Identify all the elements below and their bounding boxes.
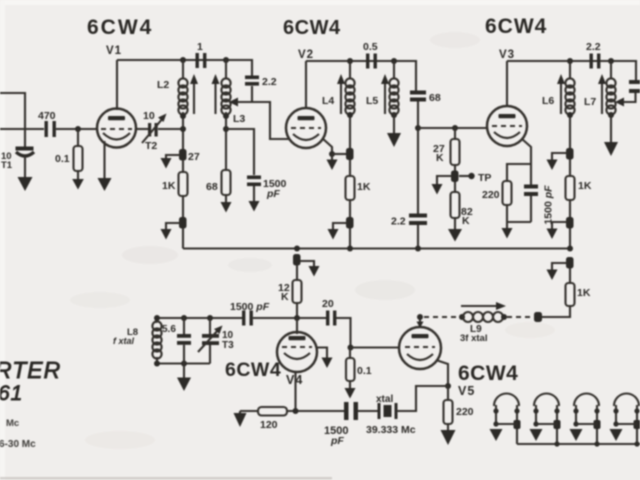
svg-text:L6: L6 (542, 95, 554, 107)
svg-text:20: 20 (322, 298, 334, 310)
wire grid V3 (418, 127, 487, 129)
wire L3 to 1500pF (226, 129, 254, 175)
tap arrow L3 (229, 98, 238, 107)
node bus 12K (294, 246, 300, 252)
svg-text:0.1: 0.1 (357, 365, 372, 377)
svg-text:470: 470 (38, 110, 56, 122)
wire heater ground bus (517, 443, 640, 445)
resistor 68 (222, 170, 231, 195)
ground arrow (L7) (604, 142, 618, 156)
trimmer capacitor T2 (148, 123, 151, 137)
wire V4 cathode (294, 371, 296, 411)
svg-text:Mc: Mc (6, 418, 19, 429)
ground arrow (328, 229, 339, 240)
ground arrow (68) (221, 202, 232, 213)
feedthrough capacitor (stage2 bypass) (346, 217, 354, 229)
svg-text:68: 68 (206, 181, 218, 193)
tuning arrow L2 (193, 82, 195, 114)
wire osc tank bottom (156, 362, 210, 364)
heater choke 1 (494, 394, 519, 407)
node L6 top (567, 58, 573, 64)
node L7 top (608, 58, 614, 64)
wire V1 plate bus (117, 60, 252, 76)
svg-text:6CW4: 6CW4 (485, 15, 547, 38)
svg-text:6CW4: 6CW4 (225, 359, 281, 381)
svg-text:39.333 Mc: 39.333 Mc (366, 424, 416, 436)
B+ bus (183, 247, 570, 249)
tube V2 (286, 108, 326, 148)
wire to bus (349, 228, 351, 249)
ground arrow (osc tank) (177, 378, 191, 392)
svg-text:pF: pF (266, 188, 280, 200)
resistor 82K (454, 182, 456, 192)
heater choke 3 (574, 394, 599, 407)
node V4 cathode (293, 408, 299, 414)
node bus 2.2 (415, 246, 421, 252)
resistor 12K (296, 265, 298, 280)
ground arrow (V1 cathode) (98, 178, 112, 191)
wire osc tank line (156, 317, 242, 319)
capacitor 68 (V2 out) (410, 91, 426, 95)
feedthrough capacitor (L4/cathode) (346, 148, 354, 160)
svg-text:V3: V3 (499, 49, 515, 61)
tap arrow L7 (615, 98, 624, 107)
heater choke 2 (534, 394, 559, 407)
capacitor 1500 pF (osc series) (242, 311, 245, 326)
feedthrough capacitor (12K feed) (293, 254, 301, 266)
svg-text:0.5: 0.5 (363, 41, 378, 53)
inductor L9 with dashed links (424, 316, 459, 318)
node L2 mid (180, 113, 186, 119)
wire to B+ bus (182, 228, 184, 249)
capacitor 0.5 (366, 54, 369, 69)
wire cathode to L4 (332, 153, 346, 155)
node L5 top (391, 58, 397, 64)
ground arrow (82K) (448, 229, 462, 242)
feedthrough capacitor (L6 bypass) (566, 217, 574, 229)
tuning arrow L7 (601, 82, 603, 114)
ground arrow (V2 cathode) (327, 160, 338, 171)
svg-text:T1: T1 (1, 160, 13, 171)
capacitor 20 (326, 311, 329, 326)
trimmer capacitor T1 (16, 147, 34, 151)
feedthrough capacitor (L9 right) (534, 312, 542, 322)
wire cathode RC ground (507, 221, 531, 223)
resistor 1K (stage2) (349, 160, 351, 176)
node L6 bottom (567, 112, 573, 118)
ground arrow (27K) (432, 184, 443, 195)
svg-text:220: 220 (456, 406, 474, 418)
svg-text:1K: 1K (357, 181, 371, 193)
node 12K bottom (294, 315, 300, 321)
inductor L8 (155, 318, 157, 323)
resistor 1K (stage1) (182, 160, 184, 172)
wire tap to V2 cathode (237, 102, 290, 139)
ground arrow (547, 229, 558, 240)
svg-text:pF: pF (330, 435, 344, 447)
wire T2 to L2 (158, 128, 183, 130)
svg-text:6-30 Mc: 6-30 Mc (0, 439, 36, 450)
test point TP (459, 175, 469, 177)
wire V2 plate bus (306, 61, 416, 91)
ground arrow (heater line left) (239, 411, 241, 414)
heater choke 4 (614, 394, 639, 407)
svg-text:6CW4: 6CW4 (87, 16, 153, 39)
wire to V5 grid (351, 346, 401, 348)
svg-text:2.2: 2.2 (391, 216, 406, 228)
node L3 top (223, 57, 229, 63)
wire V3 cathode (522, 139, 531, 185)
svg-text:220: 220 (482, 189, 500, 201)
svg-text:K: K (462, 215, 470, 227)
svg-text:2.2: 2.2 (262, 76, 277, 88)
tube V1 (97, 109, 136, 148)
node junction 0.1 (75, 126, 81, 132)
resistor 120 (258, 407, 287, 416)
resistor 220 (V3) (503, 181, 512, 205)
feedthrough capacitor (1K bypass) (179, 217, 187, 229)
node bus stage3 (567, 246, 573, 252)
resistor 1K (osc plate) (569, 268, 571, 283)
ground arrow (L5) (387, 133, 401, 147)
svg-text:K: K (436, 152, 444, 164)
svg-text:68: 68 (429, 92, 441, 104)
tuning arrow L9 (461, 305, 497, 307)
svg-text:1K: 1K (162, 180, 176, 192)
resistor 0.1 (V5 grid) (349, 348, 351, 359)
svg-text:5.6: 5.6 (162, 324, 176, 335)
svg-text:27: 27 (188, 151, 200, 163)
svg-text:L4: L4 (322, 95, 334, 107)
node V5 cathode (445, 383, 451, 389)
node L3 out (223, 126, 229, 132)
node L4 bottom (347, 112, 353, 118)
svg-text:L5: L5 (366, 95, 378, 107)
node V3 grid wire (415, 125, 421, 131)
capacitor 2.2 (V3 out) (590, 54, 593, 69)
node L2 top (180, 57, 186, 63)
svg-text:L3: L3 (233, 113, 245, 125)
svg-text:6CW4: 6CW4 (458, 362, 518, 385)
capacitor (right edge) (629, 80, 640, 84)
svg-text:L2: L2 (157, 79, 169, 91)
capacitor 2.2 (bus feed) (409, 214, 427, 218)
svg-text:f xtal: f xtal (113, 336, 135, 346)
ground arrow (V3 cathode) (502, 228, 513, 239)
wire input box top (0, 93, 25, 147)
resistor 1K (L6) (569, 159, 571, 176)
crystal xtal 39.333 Mc (378, 403, 381, 419)
svg-text:K: K (281, 291, 289, 303)
svg-text:120: 120 (260, 419, 278, 431)
wire heater line (240, 410, 258, 412)
wire V5 cathode (436, 360, 448, 386)
svg-text:1500 pF: 1500 pF (543, 185, 555, 225)
capacitor 470 (45, 121, 48, 137)
ground arrow (161, 229, 172, 240)
wire V4 grid (317, 348, 327, 359)
svg-text:T3: T3 (222, 340, 234, 351)
capacitor 1500 pF (stage1) (247, 176, 261, 180)
svg-text:1K: 1K (577, 287, 591, 299)
capacitor 1500 pF (V3 cathode) (524, 185, 538, 189)
node T3 top (207, 315, 213, 321)
resistor 220 (V5) (447, 386, 449, 400)
wire V3 plate bus (507, 61, 636, 81)
svg-text:1K: 1K (578, 180, 592, 192)
tube V5 (399, 327, 441, 369)
ground arrow (osc feed) (547, 270, 558, 281)
svg-text:V2: V2 (298, 49, 314, 61)
svg-text:L7: L7 (584, 96, 596, 108)
wire V1 to T2 (136, 128, 149, 130)
node L3 mid (223, 113, 229, 119)
capacitor 2.2 (stage1) (245, 76, 259, 80)
ground arrow (V4 grid) (322, 358, 333, 369)
tuning arrow L3 (214, 82, 216, 114)
node V5 plate (417, 314, 423, 320)
ground arrow (220 V5) (441, 430, 456, 445)
feedthrough capacitor (osc 1K feed) (566, 257, 574, 269)
tuning arrow L4 (340, 82, 342, 114)
ground arrow (1500pF) (249, 201, 260, 212)
feedthrough capacitor (L6) (566, 148, 574, 160)
tube V4 (277, 332, 317, 372)
node V5 grid junction (348, 345, 354, 351)
wire 470 to grid (56, 128, 97, 130)
ground arrow (12K feed) (309, 266, 320, 277)
ground arrow (547, 160, 558, 171)
node L7 bottom (608, 112, 614, 118)
ground arrow (0.1 V5) (345, 388, 356, 399)
svg-text:RTER: RTER (0, 357, 61, 383)
svg-text:10: 10 (143, 110, 155, 122)
tuning arrow L6 (560, 82, 562, 114)
trimmer capacitor T3 (209, 318, 211, 334)
svg-text:xtal: xtal (376, 394, 393, 405)
resistor 0.1 (grid leak V1) (77, 129, 79, 146)
svg-text:T2: T2 (145, 140, 157, 152)
svg-text:V1: V1 (106, 45, 122, 57)
svg-text:V5: V5 (458, 384, 475, 398)
capacitor 1 (196, 53, 199, 68)
ground arrow (0.1) (72, 179, 84, 190)
tuning arrow L5 (384, 82, 386, 114)
svg-text:3f xtal: 3f xtal (460, 333, 487, 344)
wire cathode V1 (103, 141, 105, 179)
feedthrough capacitor 27 (179, 149, 187, 161)
node L2 grid (180, 126, 186, 132)
node L5 bottom (391, 112, 397, 118)
svg-text:2.2: 2.2 (586, 41, 601, 53)
node bus stage2 (347, 246, 353, 252)
wire grid input (0, 128, 44, 130)
capacitor 5.6 (183, 318, 185, 334)
svg-text:1500 pF: 1500 pF (230, 301, 270, 313)
capacitor 1500 (heater) (344, 402, 349, 420)
node L4 top (347, 58, 353, 64)
wire V2 cathode (322, 138, 332, 154)
node 5.6 top (181, 315, 187, 321)
feedthrough node (27K/82K junction) (451, 171, 459, 183)
tube V3 (487, 106, 527, 146)
resistor 27K (454, 128, 456, 139)
node 27K top (452, 125, 458, 131)
svg-text:61: 61 (0, 382, 23, 405)
svg-text:0.1: 0.1 (55, 153, 70, 165)
svg-text:1: 1 (197, 41, 203, 53)
svg-text:6CW4: 6CW4 (283, 17, 341, 39)
ground arrow (27) (161, 158, 172, 169)
ground arrow (T1) (18, 177, 33, 191)
node V2 cathode (329, 151, 335, 157)
svg-text:TP: TP (478, 172, 491, 184)
